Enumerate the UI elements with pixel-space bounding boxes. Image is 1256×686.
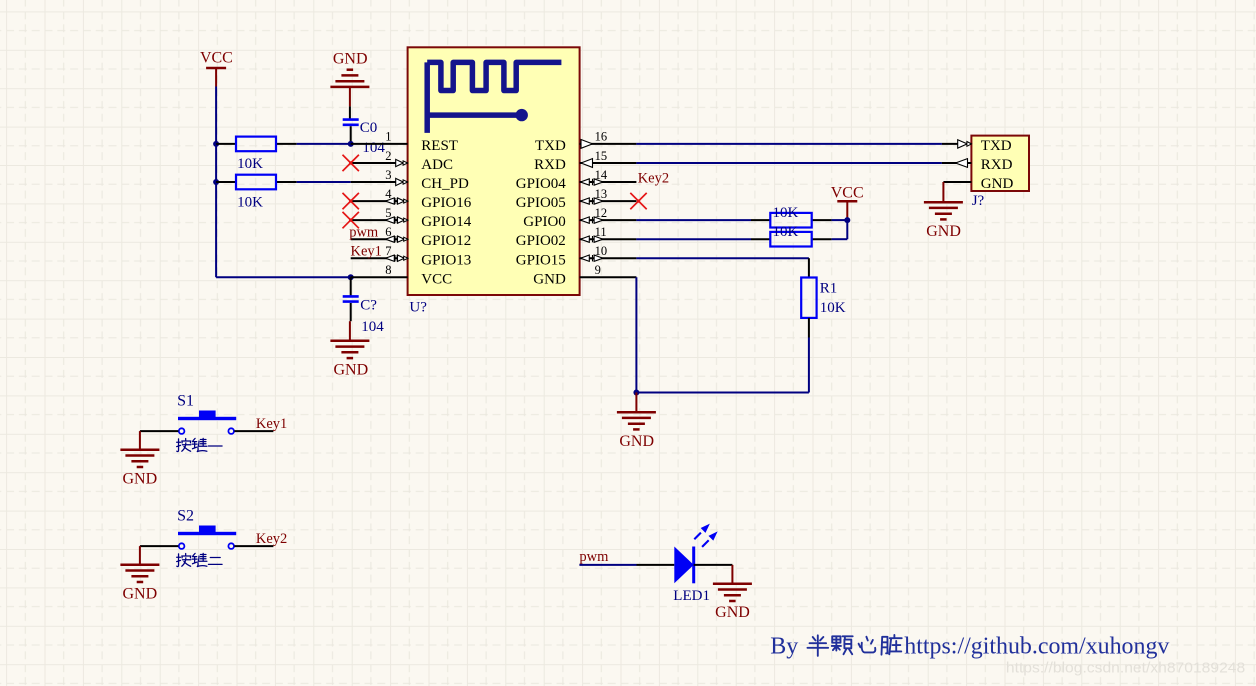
svg-text:RXD: RXD bbox=[534, 157, 566, 173]
pin 12 wire stub bbox=[580, 219, 637, 221]
node junction pin8/VCC bbox=[348, 274, 354, 280]
wire VCC rail to pin8 bbox=[216, 276, 351, 278]
pin 8 wire stub bbox=[351, 276, 408, 278]
wire R1 to GND rail bbox=[808, 338, 810, 393]
pin6 io arrows bbox=[386, 236, 395, 242]
svg-text:1: 1 bbox=[385, 130, 391, 144]
svg-text:Key1: Key1 bbox=[351, 244, 382, 260]
resistor 10K (CH_PD pull-up) body bbox=[236, 175, 276, 190]
svg-text:GPIO14: GPIO14 bbox=[421, 214, 472, 230]
comment label anjian1 bbox=[177, 439, 191, 452]
pin 1 wire stub bbox=[351, 143, 408, 145]
pin3 input arrow bbox=[396, 178, 404, 185]
IC antenna logo bbox=[427, 62, 561, 132]
power port GND (center) bbox=[635, 393, 637, 413]
wire pwm to LED bbox=[579, 564, 636, 566]
power port GND (LED) bbox=[731, 565, 733, 584]
wire resistor to VCC node bbox=[832, 219, 848, 221]
pin10 io arrows bbox=[581, 255, 590, 261]
svg-text:GND: GND bbox=[619, 433, 654, 450]
pin 4 wire stub bbox=[351, 200, 408, 202]
svg-text:GND: GND bbox=[122, 470, 157, 487]
svg-text:By: By bbox=[770, 634, 798, 660]
wire GPIO15 bbox=[636, 257, 809, 259]
svg-text:GPIO04: GPIO04 bbox=[516, 176, 567, 192]
power port GND (connector) bbox=[942, 182, 944, 202]
svg-text:Key1: Key1 bbox=[256, 416, 287, 432]
svg-text:https://blog.csdn.net/xh870189: https://blog.csdn.net/xh870189248 bbox=[1006, 661, 1245, 677]
svg-text:C?: C? bbox=[360, 297, 377, 313]
pin 2 wire stub bbox=[351, 162, 408, 164]
svg-text:S1: S1 bbox=[177, 392, 194, 409]
resistor 10K (GPIO0) pins bbox=[751, 219, 770, 221]
wire pin9 GND down bbox=[635, 277, 637, 392]
svg-text:10K: 10K bbox=[820, 300, 846, 316]
svg-text:GPIO0: GPIO0 bbox=[523, 214, 566, 230]
svg-text:LED1: LED1 bbox=[673, 588, 710, 604]
svg-text:pwm: pwm bbox=[579, 549, 609, 565]
svg-text:16: 16 bbox=[595, 130, 608, 144]
node junction GND net bbox=[633, 390, 639, 396]
svg-text:104: 104 bbox=[362, 140, 385, 156]
svg-text:pwm: pwm bbox=[349, 224, 379, 240]
pin4 io arrows bbox=[386, 198, 395, 204]
svg-text:8: 8 bbox=[385, 263, 391, 277]
LED1 anode pin bbox=[637, 564, 675, 566]
svg-text:GND: GND bbox=[926, 223, 961, 240]
svg-text:VCC: VCC bbox=[200, 50, 233, 67]
svg-text:3: 3 bbox=[385, 168, 391, 182]
pin 11 wire stub bbox=[580, 238, 637, 240]
svg-text:Key2: Key2 bbox=[638, 171, 669, 187]
pin14 io arrows bbox=[581, 179, 590, 185]
pin16 output arrow bbox=[580, 143, 584, 145]
svg-text:VCC: VCC bbox=[831, 185, 864, 202]
pin 3 wire stub bbox=[351, 181, 408, 183]
node junction VCC/R-top bbox=[213, 141, 219, 147]
wire resistor to CH_PD pin bbox=[297, 181, 351, 183]
node junction C0/REST bbox=[348, 141, 354, 147]
svg-text:10K: 10K bbox=[237, 156, 263, 172]
svg-text:GPIO15: GPIO15 bbox=[516, 252, 566, 268]
svg-text:10K: 10K bbox=[773, 205, 799, 221]
node junction VCC/resistors bbox=[844, 217, 850, 223]
svg-text:GND: GND bbox=[333, 361, 368, 378]
LED1 light arrows bbox=[694, 525, 716, 547]
svg-text:RXD: RXD bbox=[981, 157, 1013, 173]
resistor 10K (GPIO2) body bbox=[770, 232, 811, 247]
connector pin RXD bbox=[942, 162, 972, 164]
svg-text:GPIO02: GPIO02 bbox=[516, 233, 566, 249]
power port GND (S2) bbox=[139, 546, 141, 565]
pin 9 wire stub bbox=[580, 276, 637, 278]
connector pin TXD bbox=[942, 143, 972, 145]
svg-text:C0: C0 bbox=[360, 120, 378, 136]
svg-text:GPIO05: GPIO05 bbox=[516, 195, 566, 211]
resistor 10K (GPIO0) body bbox=[770, 213, 811, 228]
svg-text:CH_PD: CH_PD bbox=[421, 176, 469, 192]
capacitor C? bbox=[343, 295, 359, 298]
svg-text:https://github.com/xuhongv: https://github.com/xuhongv bbox=[904, 634, 1169, 660]
svg-text:GPIO13: GPIO13 bbox=[421, 252, 471, 268]
svg-text:VCC: VCC bbox=[421, 271, 452, 287]
capacitor C? bottom lead bbox=[350, 303, 352, 321]
pin 7 wire stub bbox=[351, 257, 408, 259]
svg-text:U?: U? bbox=[409, 299, 427, 315]
power port GND (S1) bbox=[139, 431, 141, 450]
wire GND to C0 bbox=[349, 106, 351, 119]
power port GND (below C?) bbox=[349, 321, 351, 341]
pin2 input arrow bbox=[396, 159, 404, 166]
pin12 io arrows bbox=[581, 217, 590, 223]
pin11 io arrows bbox=[581, 236, 590, 242]
capacitor C0 lead to node bbox=[350, 126, 352, 144]
wire VCC rail vertical bbox=[215, 87, 217, 278]
wire GPIO2 to resistor bbox=[636, 238, 751, 240]
LED1 cathode bar bbox=[692, 547, 695, 584]
pin 5 wire stub bbox=[351, 219, 408, 221]
svg-text:10K: 10K bbox=[773, 224, 799, 240]
no-ERC marker pin5 bbox=[343, 212, 359, 228]
svg-text:GPIO16: GPIO16 bbox=[421, 195, 472, 211]
resistor 10K (REST pull-up) pins bbox=[216, 143, 236, 145]
pin 16 wire stub bbox=[580, 143, 637, 145]
wire RXD bbox=[636, 162, 942, 164]
resistor R1 body bbox=[801, 278, 816, 318]
pin 13 wire stub bbox=[580, 200, 637, 202]
wire TXD bbox=[636, 143, 942, 145]
node junction VCC/R-bottom bbox=[213, 179, 219, 185]
pin5 io arrows bbox=[386, 217, 395, 223]
svg-text:S2: S2 bbox=[177, 507, 194, 524]
pin 15 wire stub bbox=[580, 162, 637, 164]
svg-text:GND: GND bbox=[122, 585, 157, 602]
svg-text:9: 9 bbox=[595, 263, 601, 277]
connector pin GND bbox=[943, 181, 971, 183]
resistor 10K (GPIO2) pins bbox=[751, 238, 770, 240]
capacitor C0 bbox=[343, 118, 359, 121]
svg-text:15: 15 bbox=[595, 149, 608, 163]
svg-text:GPIO12: GPIO12 bbox=[421, 233, 471, 249]
resistor 10K (CH_PD pull-up) pins bbox=[216, 181, 236, 183]
svg-text:J?: J? bbox=[972, 193, 985, 209]
svg-text:REST: REST bbox=[421, 138, 458, 154]
capacitor C? top lead bbox=[350, 277, 352, 296]
switch S2 left pin bbox=[140, 545, 179, 547]
LED1 cathode pin bbox=[694, 564, 733, 566]
svg-text:GND: GND bbox=[333, 50, 368, 67]
svg-text:TXD: TXD bbox=[981, 138, 1012, 154]
pin13 io arrows bbox=[581, 198, 590, 204]
switch S1 right pin bbox=[234, 430, 273, 432]
svg-text:Key2: Key2 bbox=[256, 531, 287, 547]
wire resistor to C0 node bbox=[297, 143, 351, 145]
svg-text:2: 2 bbox=[385, 149, 391, 163]
svg-text:ADC: ADC bbox=[421, 157, 453, 173]
pin 10 wire stub bbox=[580, 257, 637, 259]
pin15 input arrow bbox=[581, 159, 593, 168]
switch S1 left pin bbox=[140, 430, 179, 432]
svg-text:GND: GND bbox=[533, 271, 566, 287]
pin 6 wire stub bbox=[351, 238, 408, 240]
no-ERC marker pin4 bbox=[343, 193, 359, 209]
svg-text:GND: GND bbox=[715, 604, 750, 621]
svg-text:104: 104 bbox=[361, 319, 384, 335]
svg-text:10K: 10K bbox=[237, 194, 263, 210]
switch S2 right pin bbox=[234, 545, 273, 547]
pin7 io arrows bbox=[386, 255, 395, 261]
resistor R1 top pin bbox=[808, 258, 810, 277]
LED1 diode triangle bbox=[674, 547, 693, 584]
resistor 10K (REST pull-up) body bbox=[236, 137, 276, 152]
resistor R1 bottom pin bbox=[808, 318, 810, 338]
svg-text:GND: GND bbox=[981, 176, 1014, 192]
comment label anjian2 bbox=[177, 554, 191, 567]
pin 14 wire stub bbox=[580, 181, 637, 183]
svg-text:TXD: TXD bbox=[535, 138, 566, 154]
op IC U? ESP8266 body bbox=[408, 47, 580, 295]
wire GPIO0 to resistor bbox=[636, 219, 751, 221]
no-ERC marker pin13 bbox=[630, 193, 646, 209]
connector J? body bbox=[971, 136, 1029, 191]
no-ERC marker pin2 bbox=[343, 155, 359, 171]
wire resistor up to VCC node bbox=[832, 238, 848, 240]
svg-text:R1: R1 bbox=[820, 281, 838, 297]
